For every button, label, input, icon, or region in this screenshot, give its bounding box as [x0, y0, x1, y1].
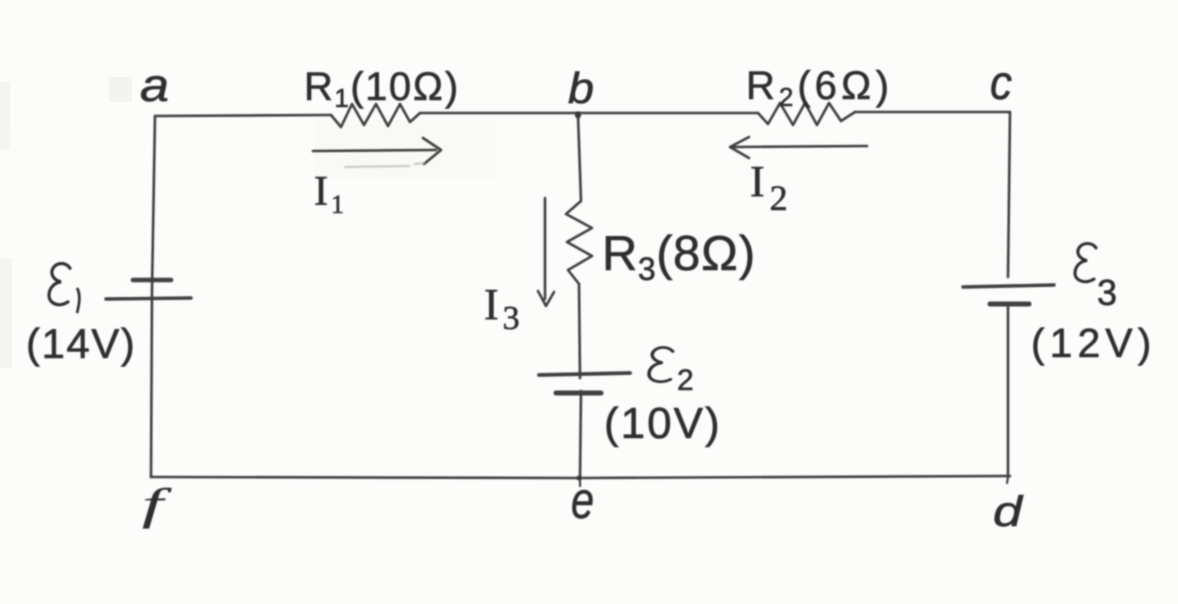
battery E1 long plate — [106, 298, 191, 299]
wire left side a to f (through battery E1) — [151, 116, 155, 477]
svg-text:b: b — [568, 64, 594, 113]
wire E3 to d — [1007, 306, 1010, 477]
resistor R3 zigzag — [566, 201, 592, 284]
wire stub below e — [579, 478, 581, 486]
resistor R2 zigzag — [758, 103, 855, 125]
label emf E2 (script epsilon) — [649, 347, 673, 381]
svg-text:d: d — [993, 488, 1025, 536]
current arrow I3 — [538, 198, 554, 306]
svg-text:R2(6Ω): R2(6Ω) — [746, 64, 893, 112]
battery E1 short plate — [133, 278, 171, 283]
resistor R1 zigzag — [331, 104, 420, 127]
battery E3 long plate — [963, 285, 1054, 287]
label emf E3 (script epsilon) — [1075, 243, 1096, 281]
svg-text:R1(10Ω): R1(10Ω) — [304, 65, 460, 113]
wire right side c to E3 — [1008, 112, 1010, 277]
svg-text:f: f — [142, 480, 173, 529]
svg-text:a: a — [140, 59, 169, 111]
wire E2 to e — [580, 391, 581, 478]
svg-text:I2: I2 — [750, 157, 793, 218]
svg-text:(10V): (10V) — [604, 399, 722, 448]
svg-text:2: 2 — [677, 364, 694, 397]
wire R2 to c — [855, 111, 1010, 114]
svg-text:I3: I3 — [484, 280, 524, 337]
bottom wire f e d — [151, 476, 1010, 478]
wire stub below d corner — [1007, 477, 1008, 483]
wire a to R1 (top left segment) — [155, 115, 331, 116]
faint stroke under I1 — [345, 163, 424, 167]
battery E2 long plate — [539, 373, 630, 375]
svg-text:(14V): (14V) — [26, 320, 136, 367]
node e junction dot — [577, 476, 582, 481]
wire R1 to b — [420, 112, 758, 115]
node b junction dot — [575, 112, 581, 118]
svg-text:3: 3 — [1097, 272, 1117, 313]
battery E3 short plate — [990, 302, 1029, 307]
wire b to R3 — [578, 115, 581, 201]
svg-text:R3(8Ω): R3(8Ω) — [602, 227, 756, 287]
svg-text:e: e — [571, 472, 594, 530]
svg-text:c: c — [990, 57, 1012, 110]
current arrow I2 — [730, 137, 867, 158]
label emf E1 (script epsilon) — [49, 264, 79, 313]
battery E2 short plate — [556, 391, 601, 396]
wire R3 to E2 — [579, 284, 580, 378]
current arrow I1 — [313, 138, 441, 164]
svg-text:(12V): (12V) — [1031, 320, 1156, 366]
